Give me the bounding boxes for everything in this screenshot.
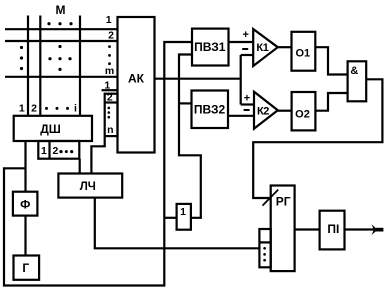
block AK [118,17,155,153]
block DSh (decoder) [14,116,92,141]
svg-text:2: 2 [52,145,58,157]
block RG (register) [271,186,295,272]
matrix column wire i [79,16,81,116]
svg-text:+: + [244,92,250,104]
block one-shot 1 [177,204,191,230]
pin bus box 2..n [105,94,118,136]
block P1 [320,211,345,250]
wire strobe branch left [4,42,192,286]
svg-text:Г: Г [22,261,29,275]
wire DSh to F [24,141,26,192]
svg-text:Ф: Ф [20,198,30,212]
wire PVZ1 to K1 plus input [229,41,254,43]
wire AND output feedback [253,79,382,198]
matrix column wire 1 [27,16,29,116]
pin dots rows [108,45,111,65]
RG cells divider [259,241,270,243]
wire strip to LCh [79,159,81,174]
svg-text:ПВЗ2: ПВЗ2 [194,103,226,117]
strip dots [59,150,73,153]
svg-text:1: 1 [106,14,112,26]
matrix column wire 2 [39,16,41,116]
svg-text:&: & [350,65,358,77]
block LCh (line part) [58,174,122,198]
block PVZ2 [192,91,229,129]
wire LCh to RG cells [95,198,260,249]
DSh pin strip divider [48,141,50,159]
svg-text:2: 2 [31,103,37,115]
wire K2 to O2 [278,110,292,112]
wire PVZ2 to K2 minus input [228,115,254,117]
svg-text:О1: О1 [295,47,310,59]
svg-text:2: 2 [108,30,114,42]
block G (generator) [14,256,40,280]
output arrowhead [372,224,384,235]
block O1 [292,32,316,71]
RG clock slash [263,190,279,206]
svg-text:m: m [105,65,114,77]
RG cells dots [263,247,266,262]
svg-text:n: n [107,124,113,136]
svg-text:2: 2 [107,92,113,104]
K1 minus sign [242,48,248,50]
matrix ellipsis dots top [47,22,72,25]
wire K1 to O1 [278,46,292,48]
DSh output pin strip [38,141,79,159]
svg-text:АК: АК [128,72,145,86]
svg-text:ПВЗ1: ПВЗ1 [194,40,226,54]
wire bus to LCh [91,136,104,173]
svg-text:ЛЧ: ЛЧ [80,181,96,193]
svg-text:ПI: ПI [327,222,339,236]
pin dots group 2 [108,107,111,119]
comparator K2 [254,92,278,129]
matrix row wire m [5,76,118,78]
RG input cells [259,229,270,267]
svg-text:1: 1 [19,103,25,115]
AND gate U1 [348,61,367,101]
wire O1 to AND gate [315,47,347,74]
column dots (above DSh) [45,107,69,110]
svg-text:М: М [56,3,66,17]
pin wire 1 (AK group 2) [102,89,118,91]
wire RG to P1 [295,228,320,230]
wire O2 to AND gate [315,93,347,111]
wire one-shot output to PVZ inputs [179,55,201,218]
block PVZ1 [192,29,229,66]
svg-text:i: i [74,103,77,115]
block F (shaper) [13,192,38,216]
svg-text:1: 1 [180,206,186,218]
block O2 [292,92,316,130]
wire AK output to comparators [155,78,241,80]
matrix ellipsis dots left [20,46,23,70]
svg-text:ДШ: ДШ [40,122,61,136]
wire K2 plus input [241,103,254,105]
K2 minus sign [244,109,250,111]
svg-text:+: + [242,29,248,41]
wire F to G [24,216,26,256]
wire P1 output [345,228,376,230]
matrix row wire 1 [5,28,118,30]
wire K1 minus input [241,54,254,56]
comparator K1 [253,29,278,66]
svg-text:1: 1 [41,145,47,157]
svg-text:К1: К1 [256,42,268,54]
matrix ellipsis dots center cluster [48,45,71,71]
matrix row wire 2 [5,40,118,42]
svg-text:К2: К2 [257,105,269,117]
wire reference vertical [240,55,242,105]
pin bus divider [105,101,118,103]
wire to one-shot input [164,217,176,219]
svg-text:РГ: РГ [276,195,291,209]
svg-text:О2: О2 [295,108,310,120]
wire branch to PVZ2 input [179,102,192,104]
